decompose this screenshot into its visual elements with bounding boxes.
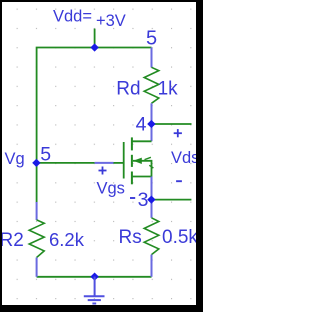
resistor Rs pin top <box>151 200 153 218</box>
junction at node 3 <box>147 196 155 204</box>
svg-text:1k: 1k <box>158 79 179 100</box>
svg-text:4: 4 <box>136 113 147 135</box>
transistor M1 channel bar top <box>131 137 133 150</box>
resistor Rs body <box>144 218 159 255</box>
wire node 3 stub <box>152 199 192 201</box>
resistor Rs pin bottom <box>151 255 153 277</box>
svg-text:Rd: Rd <box>116 79 140 100</box>
resistor Rd body <box>144 67 159 103</box>
resistor Rd pin bottom <box>151 103 153 124</box>
plus sign Vgs <box>99 167 107 175</box>
svg-text:5: 5 <box>146 27 157 49</box>
svg-text:5: 5 <box>40 143 51 165</box>
transistor M1 drain lead <box>132 140 152 142</box>
svg-text:6.2k: 6.2k <box>49 229 85 250</box>
resistor R2 body <box>29 220 44 258</box>
transistor M1 body arrow <box>133 158 142 164</box>
plus sign Vds <box>174 129 182 137</box>
svg-text:+3V: +3V <box>96 12 126 30</box>
svg-text:Vds: Vds <box>171 149 199 167</box>
transistor M1 body arrow barb lower <box>149 165 153 168</box>
svg-text:3: 3 <box>138 189 149 211</box>
transistor M1 body lead <box>133 161 152 177</box>
junction at Vg node 5 <box>32 159 40 167</box>
ground stem <box>94 277 96 296</box>
ground bar 3 <box>92 303 96 305</box>
ground bar 1 <box>84 295 105 297</box>
resistor Rd pin top <box>151 48 153 68</box>
junction at ground <box>90 273 98 281</box>
svg-text:R2: R2 <box>0 230 24 251</box>
transistor M1 channel bar middle <box>131 155 133 167</box>
wire node 4 stub <box>152 123 192 125</box>
wire top rail Vdd <box>37 48 152 203</box>
minus sign Vds <box>176 180 182 182</box>
transistor M1 source lead <box>132 176 152 178</box>
wire Vdd stub <box>94 29 96 48</box>
svg-text:Rs: Rs <box>119 227 142 248</box>
transistor M1 drain pin <box>151 124 153 141</box>
wire gate (Vg to M1 gate) <box>37 162 95 164</box>
transistor M1 source pin <box>151 177 153 200</box>
wire bottom rail <box>37 276 152 278</box>
transistor M1 body arrow barb upper <box>145 157 151 159</box>
junction at Vdd <box>90 43 98 51</box>
ground bar 2 <box>88 299 101 301</box>
svg-text:0.5k: 0.5k <box>162 227 198 248</box>
transistor M1 gate lead <box>114 162 124 164</box>
minus sign Vgs <box>130 197 135 199</box>
resistor R2 pin top <box>36 202 38 220</box>
transistor M1 gate pin <box>95 162 114 164</box>
svg-text:Vg: Vg <box>5 150 25 168</box>
transistor M1 gate bar <box>123 142 125 179</box>
resistor R2 pin bottom <box>36 258 38 277</box>
svg-text:Vgs: Vgs <box>97 179 125 197</box>
transistor M1 channel bar bottom <box>131 172 133 185</box>
junction at node 4 <box>147 120 155 128</box>
svg-text:Vdd=: Vdd= <box>53 8 92 26</box>
